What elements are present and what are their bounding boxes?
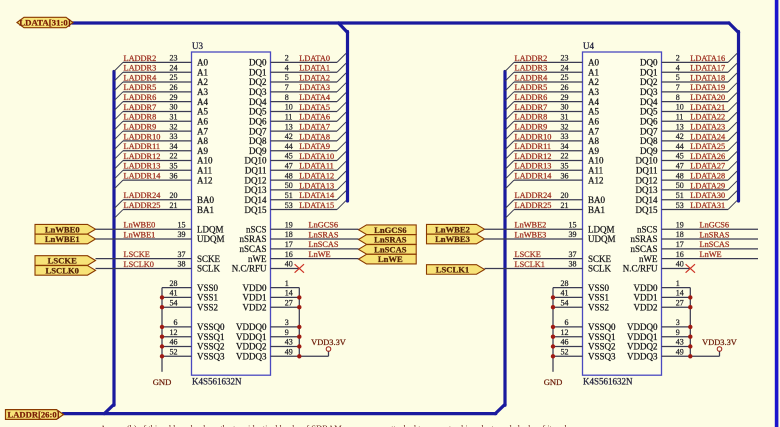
svg-text:LADDR[26:0]: LADDR[26:0] [7,410,59,420]
svg-text:DQ1: DQ1 [640,67,658,77]
svg-text:LnGCS6: LnGCS6 [374,225,407,235]
svg-text:DQ0: DQ0 [640,58,658,68]
svg-text:BA1: BA1 [197,205,214,215]
svg-text:LnGCS6: LnGCS6 [700,221,730,230]
U3 pin 36 A12 / net LADDR14 wire + bus entry [114,171,213,189]
svg-text:LnSRAS: LnSRAS [374,235,407,245]
svg-text:LADDR10: LADDR10 [515,132,552,141]
svg-text:LnWBE2: LnWBE2 [435,224,470,234]
svg-text:25: 25 [561,73,569,82]
svg-text:13: 13 [676,122,684,131]
svg-text:3: 3 [676,318,680,327]
U3 pin 18 nSRAS / net LnSRAS wire [239,230,358,244]
svg-text:LDATA28: LDATA28 [690,172,725,181]
svg-text:nWE: nWE [248,254,267,264]
svg-text:23: 23 [170,54,178,63]
U3 pin 50 DQ13 / net LDATA13 wire + bus entry [245,181,347,195]
power port VDD3.3V of U4 [702,338,737,351]
svg-text:LADDR11: LADDR11 [124,142,161,151]
svg-text:A11: A11 [588,166,603,176]
svg-text:LnWE: LnWE [309,250,331,259]
svg-text:LnWBE0: LnWBE0 [45,224,80,234]
svg-text:LADDR13: LADDR13 [515,162,552,171]
U4 pin 36 A12 / net LADDR14 wire + bus entry [505,171,604,189]
svg-text:LDATA17: LDATA17 [690,64,725,73]
svg-text:VSSQ3: VSSQ3 [588,352,616,362]
U3 pin 11 DQ6 / net LDATA6 wire + bus entry [249,112,346,126]
svg-text:VSSQ1: VSSQ1 [588,332,616,342]
svg-text:BA0: BA0 [588,195,606,205]
U4 pin 44 DQ9 / net LDATA25 wire + bus entry [640,142,737,156]
U4 pin 42 DQ8 / net LDATA24 wire + bus entry [640,132,737,146]
svg-text:nSRAS: nSRAS [239,234,266,244]
svg-text:A1: A1 [588,67,599,77]
U4 pin 31 A6 / net LADDR8 wire + bus entry [505,112,599,130]
U3 pin 35 A11 / net LADDR13 wire + bus entry [114,162,212,180]
svg-text:21: 21 [561,201,569,210]
bus entry chamfer top bus to U3 data bus [339,23,348,33]
U4 pin 7 DQ3 / net LDATA19 wire + bus entry [640,83,737,97]
U4 pin 13 DQ7 / net LDATA23 wire + bus entry [640,122,737,136]
svg-text:A2: A2 [197,77,208,87]
junction U3 VDD row 2 [297,305,301,309]
svg-text:38: 38 [569,260,577,269]
svg-text:A4: A4 [588,97,599,107]
svg-text:12: 12 [170,328,178,337]
svg-text:A8: A8 [588,136,599,146]
U4 pin 40 N.C/RFU stub [623,260,690,274]
svg-text:DQ1: DQ1 [249,67,267,77]
U4 pin 9 VDDQ1 stub [627,328,690,342]
U3 pin 19 nSCS / net LnGCS6 wire [246,220,359,234]
svg-text:LADDR12: LADDR12 [124,152,161,161]
svg-text:24: 24 [561,63,569,72]
U3 pin 16 nWE / net LnWE wire [248,250,359,264]
svg-text:32: 32 [170,122,178,131]
U3 pin 26 A3 / net LADDR5 wire + bus entry [114,83,208,101]
svg-text:VDD1: VDD1 [634,293,658,303]
svg-text:LADDR24: LADDR24 [515,191,553,200]
junction U3 VSS row 2 [160,305,164,309]
svg-text:50: 50 [676,181,684,190]
svg-text:LnWBE2: LnWBE2 [515,221,547,230]
svg-text:31: 31 [561,112,569,121]
junction U4 VDD row 2 [688,305,692,309]
U4 pin 17 nSCAS / net LnSCAS wire [630,240,758,254]
U3 pin 8 DQ4 / net LDATA4 wire + bus entry [249,93,346,107]
U3 pin 1 VDD0 stub [243,279,300,293]
U4 pin 25 A2 / net LADDR4 wire + bus entry [505,73,599,91]
svg-text:VDD0: VDD0 [243,283,267,293]
svg-text:LnWE: LnWE [378,254,403,264]
svg-text:VDDQ1: VDDQ1 [236,332,267,342]
junction U4 VSS row 6 [551,354,555,358]
svg-text:43: 43 [676,338,684,347]
svg-text:16: 16 [285,250,293,259]
svg-text:LDATA26: LDATA26 [690,152,725,161]
svg-text:DQ9: DQ9 [249,146,267,156]
svg-text:LADDR10: LADDR10 [124,132,161,141]
svg-text:30: 30 [561,103,569,112]
svg-text:LDATA15: LDATA15 [299,201,334,210]
svg-text:DQ14: DQ14 [636,195,658,205]
svg-text:A0: A0 [197,58,208,68]
junction U3 VSS row 5 [160,344,164,348]
U3 pin 24 A1 / net LADDR3 wire + bus entry [114,63,208,81]
svg-text:LDATA16: LDATA16 [690,54,725,63]
U4 pin 19 nSCS / net LnGCS6 wire [637,220,758,234]
svg-text:18: 18 [676,230,684,239]
U4 pin 52 VSSQ3 stub [553,348,616,362]
svg-text:GND: GND [544,377,563,387]
U4 pin 3 VDDQ0 stub [627,318,690,332]
svg-text:VSS0: VSS0 [588,283,610,293]
svg-text:A7: A7 [588,126,599,136]
svg-text:VDD2: VDD2 [634,302,658,312]
svg-text:21: 21 [170,201,178,210]
svg-text:LDATA6: LDATA6 [299,113,330,122]
U3 pin 52 VSSQ3 stub [162,348,225,362]
U4 pin 47 DQ11 / net LDATA27 wire + bus entry [636,161,737,175]
svg-text:LSCKE: LSCKE [124,250,150,259]
svg-text:51: 51 [676,191,684,200]
svg-text:DQ15: DQ15 [636,205,658,215]
svg-text:40: 40 [285,260,293,269]
svg-text:VSSQ3: VSSQ3 [197,352,225,362]
svg-text:DQ12: DQ12 [636,175,658,185]
svg-text:DQ11: DQ11 [636,166,658,176]
svg-text:LDATA8: LDATA8 [299,132,330,141]
junction U3 VSS row 6 [160,354,164,358]
svg-text:LADDR7: LADDR7 [515,103,548,112]
svg-text:LnSRAS: LnSRAS [700,230,730,239]
svg-text:24: 24 [170,63,178,72]
bus LDATA[31:0] horizontal top [72,21,729,24]
svg-text:DQ6: DQ6 [640,116,658,126]
svg-text:SCKE: SCKE [588,254,612,264]
svg-text:12: 12 [561,328,569,337]
svg-text:N.C/RFU: N.C/RFU [232,264,267,274]
U3 pin 43 VDDQ2 stub [236,338,299,352]
svg-text:LDATA3: LDATA3 [299,83,330,92]
U3 pin 9 VDDQ1 stub [236,328,299,342]
U3 pin 54 VSS2 stub [162,298,218,312]
U4 pin 32 A7 / net LADDR9 wire + bus entry [505,122,599,140]
svg-text:LADDR6: LADDR6 [124,93,157,102]
svg-text:DQ10: DQ10 [636,156,658,166]
port LnWBE0 [35,224,96,234]
svg-text:DQ4: DQ4 [249,97,267,107]
svg-text:A copy (b) of this address ban: A copy (b) of this address bank — the tw… [100,423,567,427]
svg-text:nSCS: nSCS [637,224,658,234]
svg-text:48: 48 [676,171,684,180]
svg-text:13: 13 [285,122,293,131]
svg-text:VDD3.3V: VDD3.3V [702,338,737,347]
VDD rail wire of U3 [299,288,328,357]
U4 pin 12 VSSQ1 stub [553,328,616,342]
svg-text:46: 46 [561,338,569,347]
svg-text:LnWBE1: LnWBE1 [45,234,80,244]
svg-text:DQ7: DQ7 [640,126,658,136]
svg-text:A10: A10 [588,156,604,166]
bus chamfer bottom bus to U4 address bus [495,404,505,413]
power port VDD3.3V of U3 [311,338,346,351]
svg-text:45: 45 [676,152,684,161]
svg-text:37: 37 [178,250,186,259]
svg-text:LnSCAS: LnSCAS [700,240,730,249]
svg-text:LSCLK0: LSCLK0 [124,260,154,269]
svg-text:VDD3.3V: VDD3.3V [311,338,346,347]
U4 pin 15 LDQM / net LnWBE2 wire [485,220,615,234]
U3 pin 17 nSCAS / net LnSCAS wire [239,240,358,254]
svg-text:5: 5 [285,73,289,82]
svg-text:LDATA22: LDATA22 [690,113,725,122]
U4 pin 23 A0 / net LADDR2 wire + bus entry [505,54,599,72]
svg-text:44: 44 [285,142,293,151]
U3 pin 46 VSSQ2 stub [162,338,225,352]
svg-text:LADDR2: LADDR2 [515,54,548,63]
svg-text:LADDR8: LADDR8 [515,113,548,122]
svg-text:43: 43 [285,338,293,347]
bus corner top bus to U4 data bus [729,23,739,33]
svg-text:A12: A12 [197,175,213,185]
junction U4 VSS row 1 [551,295,555,299]
junction U3 VSS row 1 [160,295,164,299]
port LSCLK1 [427,265,485,275]
svg-text:DQ8: DQ8 [640,136,658,146]
svg-text:BA1: BA1 [588,205,605,215]
svg-text:LDATA29: LDATA29 [690,181,725,190]
U3 pin 14 VDD1 stub [243,289,300,303]
svg-text:LADDR4: LADDR4 [124,73,158,82]
svg-text:LADDR12: LADDR12 [515,152,552,161]
svg-text:LDATA14: LDATA14 [299,191,335,200]
svg-text:11: 11 [285,112,293,121]
svg-text:LADDR8: LADDR8 [124,113,157,122]
port LnSRAS [359,235,417,245]
svg-text:DQ11: DQ11 [245,166,267,176]
svg-text:VSSQ0: VSSQ0 [197,322,225,332]
svg-text:47: 47 [285,162,293,171]
U4 pin 43 VDDQ2 stub [627,338,690,352]
U4 pin 1 VDD0 stub [634,279,691,293]
U3 pin 27 VDD2 stub [243,298,300,312]
U4 pin 8 DQ4 / net LDATA20 wire + bus entry [640,93,737,107]
svg-text:22: 22 [170,152,178,161]
U4 pin 34 A9 / net LADDR11 wire + bus entry [505,142,599,160]
svg-text:54: 54 [170,298,178,307]
U3 pin 44 DQ9 / net LDATA9 wire + bus entry [249,142,346,156]
svg-text:9: 9 [285,328,289,337]
svg-text:34: 34 [170,142,178,151]
svg-text:VSSQ2: VSSQ2 [588,342,616,352]
U3 pin 23 A0 / net LADDR2 wire + bus entry [114,54,208,72]
svg-text:DQ10: DQ10 [245,156,267,166]
svg-text:54: 54 [561,298,569,307]
svg-text:36: 36 [170,171,178,180]
svg-text:DQ4: DQ4 [640,97,658,107]
svg-text:52: 52 [561,348,569,357]
port LnWBE1 [35,234,96,244]
junction U3 VDD row 3 [297,325,301,329]
svg-text:A3: A3 [197,87,208,97]
svg-text:LADDR11: LADDR11 [515,142,552,151]
svg-text:UDQM: UDQM [197,234,225,244]
svg-text:26: 26 [561,83,569,92]
svg-text:LDATA4: LDATA4 [299,93,331,102]
svg-text:LADDR7: LADDR7 [124,103,157,112]
svg-text:LDATA2: LDATA2 [299,73,330,82]
U4 pin 16 nWE / net LnWE wire [639,250,758,264]
U4 pin 6 VSSQ0 stub [553,318,616,332]
svg-text:LADDR5: LADDR5 [124,83,157,92]
svg-text:LSCKE: LSCKE [48,256,77,266]
U3 pin 33 A8 / net LADDR10 wire + bus entry [114,132,208,150]
svg-text:38: 38 [178,260,186,269]
U3 pin 41 VSS1 stub [162,289,218,303]
U3 pin 34 A9 / net LADDR11 wire + bus entry [114,142,208,160]
U4 pin 48 DQ12 / net LDATA28 wire + bus entry [636,171,738,185]
svg-text:19: 19 [285,220,293,229]
U4 pin 37 SCKE / net LSCKE wire [513,250,612,264]
U3 pin 3 VDDQ0 stub [236,318,299,332]
svg-text:VDDQ3: VDDQ3 [236,352,267,362]
svg-text:SCLK: SCLK [197,264,221,274]
svg-text:K4S561632N: K4S561632N [192,377,242,387]
svg-text:35: 35 [561,162,569,171]
svg-text:2: 2 [285,54,289,63]
svg-text:LDATA7: LDATA7 [299,122,330,131]
port LnWE [359,254,417,264]
svg-text:VSS1: VSS1 [197,293,218,303]
svg-text:8: 8 [676,93,680,102]
svg-text:41: 41 [170,289,178,298]
svg-text:3: 3 [285,318,289,327]
svg-text:A9: A9 [588,146,599,156]
junction U3 VDD row 6 [297,354,301,358]
svg-text:LADDR5: LADDR5 [515,83,548,92]
svg-text:LnWE: LnWE [700,250,722,259]
bus LADDR[26:0] horizontal bottom [63,412,496,415]
svg-text:25: 25 [170,73,178,82]
svg-text:33: 33 [170,132,178,141]
svg-text:29: 29 [561,93,569,102]
U4 pin 33 A8 / net LADDR10 wire + bus entry [505,132,599,150]
IC U4 K4S561632N SDRAM body [583,52,662,375]
svg-text:22: 22 [561,152,569,161]
junction U4 VDD row 4 [688,335,692,339]
svg-text:A0: A0 [588,58,599,68]
svg-text:6: 6 [174,318,178,327]
U4 pin 22 A10 / net LADDR12 wire + bus entry [505,152,604,170]
svg-text:44: 44 [676,142,684,151]
svg-text:47: 47 [676,162,684,171]
svg-text:34: 34 [561,142,569,151]
svg-text:DQ5: DQ5 [640,107,658,117]
svg-text:4: 4 [676,63,680,72]
svg-text:VSSQ0: VSSQ0 [588,322,616,332]
U3 pin 51 DQ14 / net LDATA14 wire + bus entry [245,191,347,205]
svg-text:18: 18 [285,230,293,239]
U3 pin 4 DQ1 / net LDATA1 wire + bus entry [249,63,346,77]
svg-text:35: 35 [170,162,178,171]
U3 pin 6 VSSQ0 stub [162,318,225,332]
svg-text:14: 14 [285,289,293,298]
svg-text:9: 9 [676,328,680,337]
no-connect X marker on U4 pin 40 [686,264,695,272]
svg-text:VDD1: VDD1 [243,293,267,303]
svg-text:A5: A5 [588,107,599,117]
U3 pin 7 DQ3 / net LDATA3 wire + bus entry [249,83,346,97]
svg-text:16: 16 [676,250,684,259]
U3 pin 20 BA0 / net LADDR24 wire + bus entry [114,191,215,209]
VDD rail wire of U4 [690,288,719,357]
svg-text:53: 53 [285,201,293,210]
svg-text:LADDR6: LADDR6 [515,93,548,102]
svg-text:20: 20 [170,191,178,200]
U4 pin 41 VSS1 stub [553,289,609,303]
svg-text:VDD0: VDD0 [634,283,658,293]
svg-text:LnWBE3: LnWBE3 [435,234,470,244]
svg-text:49: 49 [676,348,684,357]
svg-text:30: 30 [170,103,178,112]
svg-text:29: 29 [170,93,178,102]
svg-text:A1: A1 [197,67,208,77]
svg-text:LDATA27: LDATA27 [690,162,725,171]
junction U3 VSS row 3 [160,325,164,329]
svg-text:LnSCAS: LnSCAS [309,240,339,249]
U4 pin 5 DQ2 / net LDATA18 wire + bus entry [640,73,737,87]
svg-text:nSRAS: nSRAS [630,234,657,244]
svg-text:45: 45 [285,152,293,161]
svg-text:LDATA0: LDATA0 [299,54,330,63]
U3 pin 15 LDQM / net LnWBE0 wire [96,220,224,234]
svg-text:A6: A6 [197,116,208,126]
U4 pin 39 UDQM / net LnWBE3 wire [485,230,616,244]
svg-text:N.C/RFU: N.C/RFU [623,264,658,274]
svg-text:LADDR4: LADDR4 [515,73,549,82]
U3 pin 21 BA1 / net LADDR25 wire + bus entry [114,201,214,219]
svg-text:17: 17 [285,240,293,249]
svg-text:LADDR25: LADDR25 [124,201,161,210]
U4 pin 54 VSS2 stub [553,298,609,312]
U4 pin 27 VDD2 stub [634,298,691,312]
port LnWBE2 [427,224,485,234]
svg-text:36: 36 [561,171,569,180]
U4 pin 4 DQ1 / net LDATA17 wire + bus entry [640,63,737,77]
bus continuation at right sheet edge [775,0,779,427]
svg-text:27: 27 [285,298,293,307]
svg-text:U3: U3 [192,41,203,51]
svg-text:41: 41 [561,289,569,298]
svg-text:23: 23 [561,54,569,63]
U3 pin 28 VSS0 stub [162,279,219,293]
svg-text:LDATA24: LDATA24 [690,132,726,141]
junction U3 VSS row 4 [160,335,164,339]
svg-text:39: 39 [178,230,186,239]
U3 pin 5 DQ2 / net LDATA2 wire + bus entry [249,73,346,87]
svg-text:7: 7 [676,83,680,92]
junction U4 VSS row 5 [551,344,555,348]
svg-text:LDATA23: LDATA23 [690,122,725,131]
port LSCLK0 [35,266,96,276]
svg-text:2: 2 [676,54,680,63]
svg-text:50: 50 [285,181,293,190]
svg-text:DQ8: DQ8 [249,136,267,146]
bus LADDR vertical at U3 [112,72,115,406]
svg-text:LADDR3: LADDR3 [124,64,157,73]
svg-text:A8: A8 [197,136,208,146]
